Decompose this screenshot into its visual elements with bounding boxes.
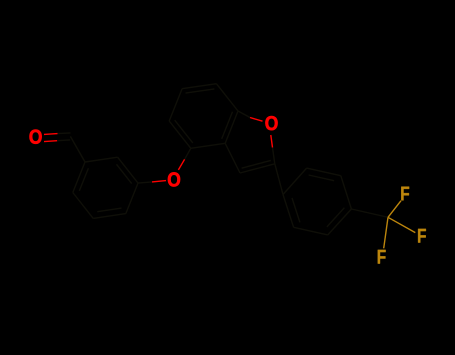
bond C2p-C3p (phenyl, double) [307, 168, 341, 181]
bond C3-O2 (aryl ether) [138, 181, 166, 184]
bond Cald-C1 [70, 136, 85, 162]
bond Ccf3-F3 [384, 217, 388, 248]
fluorine F1 [401, 187, 409, 201]
bond C5p-C6p (phenyl) [294, 227, 328, 235]
bond C2-C3 (left ring, double) [117, 157, 139, 183]
fluorine F3 [378, 250, 386, 264]
bond C4p-C5p (phenyl, double) [327, 208, 352, 235]
bond C1-C2 (left ring) [85, 157, 118, 162]
bond C3f-C3a (furan) [225, 143, 240, 173]
bond C4p-Ccf3 [351, 209, 388, 217]
double bond C=O (aldehyde) [44, 133, 71, 142]
bond Ccf3-F2 [388, 217, 415, 232]
bond Ccf3-F1 [388, 201, 401, 218]
bond C4b-C5b (benzofuran benzo ring, double) [169, 120, 193, 148]
bond C5b-C6b (benzofuran) [169, 89, 182, 121]
fluorine F2 [418, 229, 426, 243]
bond C6p-C1p (phenyl, double) [283, 195, 300, 228]
bond C2f-C3f (furan, double) [240, 160, 275, 173]
bond C3a-C4b (benzofuran) [191, 143, 225, 148]
ether oxygen O2 [168, 172, 180, 186]
bond C1p-C2p (phenyl) [283, 168, 307, 194]
aldehyde oxygen O1 [30, 130, 42, 144]
bond C4-C5 (left ring, double) [93, 208, 126, 218]
furan oxygen O3 [265, 116, 277, 130]
bond O2-C4b (to benzofuran) [178, 148, 190, 170]
bond C3-C4 (left ring) [126, 183, 138, 214]
bond C3p-C4p (phenyl) [341, 176, 352, 209]
bond C6b-C7b (benzofuran, double) [182, 84, 216, 93]
bond O3-C2f (furan) [271, 135, 275, 164]
bond C7b-C7a (benzofuran) [216, 84, 238, 111]
bond C7a-C3a (fused bond, double) [222, 111, 238, 143]
bond C5-C6 (left ring) [73, 193, 93, 219]
bond C7a-O3 (furan) [238, 111, 263, 121]
bond C6-C1 (left ring, double) [73, 162, 89, 193]
bond C2f-C1p (to phenyl) [275, 164, 283, 195]
